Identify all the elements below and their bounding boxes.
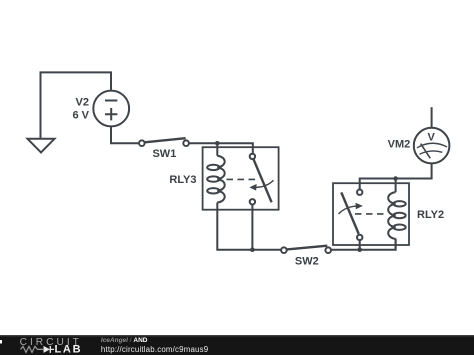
switch SW1 — [139, 138, 189, 146]
svg-text:IceAngel / AND: IceAngel / AND — [101, 337, 148, 344]
relay RLY3 box — [203, 147, 279, 210]
voltmeter VM2 — [414, 128, 450, 164]
wire RLY2 switch bottom to bottom rail — [359, 240, 361, 250]
svg-text:RLY3: RLY3 — [169, 174, 196, 186]
voltage source V2 — [93, 91, 129, 127]
svg-text:LAB: LAB — [55, 344, 83, 355]
relay RLY2 switch — [341, 190, 362, 241]
svg-text:SW1: SW1 — [152, 148, 176, 160]
relay RLY2 actuation arrow — [339, 203, 363, 214]
wire RLY3 coil bottom rail to SW2 — [217, 210, 281, 250]
svg-text:6 V: 6 V — [72, 110, 89, 122]
svg-text:VM2: VM2 — [388, 138, 411, 150]
wire RLY2 switch top to VM2 — [360, 164, 432, 190]
svg-text:SW2: SW2 — [295, 255, 319, 267]
node junction RLY2 switch / bottom rail — [357, 247, 362, 252]
svg-text:http://circuitlab.com/c9maus9: http://circuitlab.com/c9maus9 — [101, 345, 209, 354]
wire SW2 to RLY2 coil bottom — [331, 239, 396, 250]
wire ground to V2 top — [41, 72, 112, 138]
CircuitLab logo resistor zigzag — [21, 346, 44, 352]
wire RLY3 switch bottom to bottom rail — [251, 205, 253, 250]
switch SW2 — [281, 246, 331, 253]
relay RLY3 actuation dashed link — [227, 178, 259, 180]
node junction RLY3 switch / bottom rail — [250, 247, 255, 252]
node junction RLY2 coil / VM2 wire — [393, 176, 398, 181]
relay RLY3 coil — [207, 143, 224, 209]
relay RLY2 box — [333, 183, 409, 245]
relay RLY2 actuation dashed link — [355, 213, 388, 215]
relay RLY2 coil — [388, 179, 405, 250]
svg-text:V: V — [428, 131, 436, 143]
CircuitLab logo diode — [44, 346, 55, 353]
svg-text:RLY2: RLY2 — [417, 209, 444, 221]
footer bar — [0, 335, 474, 355]
relay RLY3 actuation arrow — [249, 180, 273, 190]
wire V2 bottom to SW1 — [111, 126, 139, 143]
relay RLY3 switch — [250, 154, 272, 205]
wire SW1 to RLY3 switch top — [189, 143, 253, 153]
wire VM2 top stub — [431, 107, 433, 128]
ground — [28, 139, 55, 153]
node junction SW1 / RLY3 coil — [215, 141, 220, 146]
svg-text:V2: V2 — [76, 97, 89, 109]
